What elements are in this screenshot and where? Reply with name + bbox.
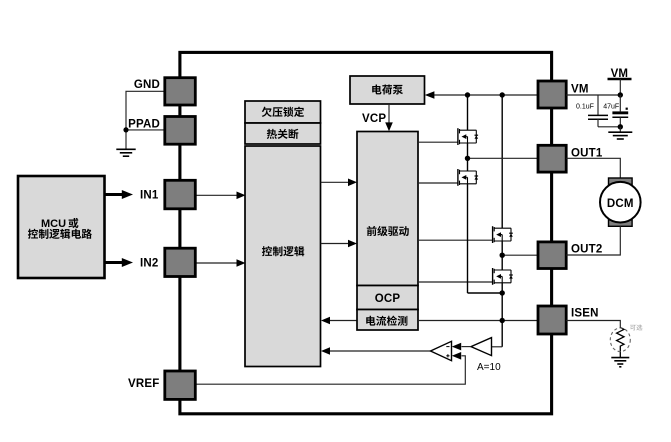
wire right bridge chain [501, 95, 503, 228]
svg-text:IN1: IN1 [140, 190, 159, 202]
svg-text:IN2: IN2 [140, 258, 159, 270]
svg-text:DCM: DCM [607, 198, 634, 210]
block thermal shutdown 热关断 [245, 123, 321, 144]
pin ISEN [538, 306, 566, 334]
svg-text:VREF: VREF [128, 378, 159, 390]
pin IN2 [165, 248, 196, 276]
pin IN1 [165, 180, 196, 209]
svg-text:47uF: 47uF [603, 104, 619, 111]
svg-text:VCP: VCP [362, 113, 386, 125]
wire control logic to pre-driver 2 [321, 243, 349, 245]
motor DCM [600, 178, 641, 226]
block control logic 控制逻辑 [245, 146, 321, 367]
capacitor 0.1uF [576, 95, 608, 127]
wire gate M3 [418, 239, 493, 241]
op-amp A=10 [431, 341, 452, 360]
ground (RSENSE) [611, 358, 629, 367]
wire ISEN internal [418, 320, 538, 322]
wire bridge to amplifier buffer [492, 346, 502, 348]
svg-text:OCP: OCP [375, 293, 401, 305]
IC boundary [180, 52, 552, 413]
svg-text:GND: GND [134, 79, 160, 91]
capacitor 47uF [603, 95, 628, 127]
node OUT1 tap [465, 156, 470, 161]
node source join [500, 290, 505, 295]
block current sense 电流检测 [357, 310, 418, 331]
transistor M3 [493, 226, 513, 243]
wire VM pin to caps [566, 94, 620, 96]
wire bridge source join [468, 292, 503, 294]
transistor M1 [458, 128, 478, 145]
wire OUT2 tap [502, 254, 538, 256]
wire IN1 to control logic [195, 194, 237, 196]
ground (GND/PPAD) [116, 149, 135, 156]
block UVLO 欠压锁定 [245, 101, 321, 123]
wire MCU to IN1 (thick arrow) [105, 193, 124, 196]
wire motor to OUT2 [566, 226, 620, 255]
pin OUT1 [538, 145, 566, 172]
wire PPAD pin to ground rail [126, 129, 165, 131]
node ISEN junction [500, 318, 505, 323]
wire left bridge chain [467, 95, 469, 130]
svg-text:MCU: MCU [41, 218, 66, 230]
transistor M4 [493, 268, 513, 285]
wire VM rail [434, 94, 538, 96]
wire MCU to IN2 (thick arrow) [105, 261, 124, 264]
wire amplifier to control logic [330, 350, 431, 352]
node VM supply junction [618, 92, 623, 97]
block pre-driver 前级驱动 [357, 132, 418, 286]
node VM rail / right bridge [500, 92, 505, 97]
wire OUT1 to motor [566, 158, 620, 181]
wire VCP charge pump to pre-driver [388, 104, 390, 124]
wire IN2 to control logic [195, 262, 237, 264]
svg-text:VM: VM [571, 83, 589, 95]
wire gate M1 [418, 141, 458, 143]
node VM rail / left bridge [465, 92, 470, 97]
wire caps bottom [598, 126, 620, 128]
op-amp buffer [471, 338, 492, 356]
transistor M2 [458, 169, 478, 186]
block charge pump 电荷泵 [350, 76, 425, 104]
svg-text:PPAD: PPAD [128, 119, 160, 131]
wire ISEN external [566, 321, 620, 328]
svg-text:ISEN: ISEN [571, 308, 599, 320]
wire gate M2 [418, 182, 458, 184]
svg-text:0.1uF: 0.1uF [576, 104, 594, 111]
svg-text:OUT1: OUT1 [571, 148, 603, 160]
ground (VM caps) [608, 127, 632, 139]
wire VREF to amplifier + input [195, 356, 465, 384]
wire GND pin to external ground [126, 91, 165, 149]
pin VM [538, 81, 566, 108]
node caps bottom junction [618, 124, 623, 129]
pin OUT2 [538, 242, 566, 269]
node PPAD/GND junction [123, 127, 128, 132]
node OUT2 tap [500, 253, 505, 258]
block OCP [357, 286, 418, 310]
wire buffer to amp minus [462, 346, 472, 348]
pin VREF [165, 371, 196, 399]
resistor RSENSE (optional) [610, 324, 642, 357]
wire current sense to control logic [330, 320, 357, 322]
svg-text:A=10: A=10 [477, 362, 501, 373]
wire OUT1 tap [468, 157, 539, 159]
wire gate M4 [418, 281, 493, 283]
MCU block [18, 176, 105, 278]
svg-text:OUT2: OUT2 [571, 243, 602, 255]
wire control logic to pre-driver 1 [321, 181, 349, 183]
pin PPAD [165, 117, 196, 145]
pin GND [165, 78, 196, 105]
